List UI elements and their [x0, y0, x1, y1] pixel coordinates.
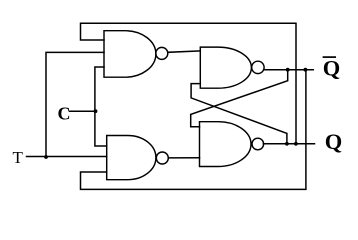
svg-text:T: T — [13, 148, 24, 167]
svg-text:Q: Q — [325, 129, 343, 154]
svg-text:Q: Q — [323, 56, 341, 81]
svg-text:C: C — [58, 104, 71, 124]
